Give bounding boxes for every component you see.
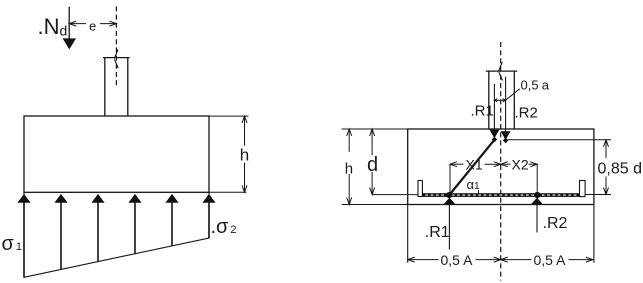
svg-text:0,5 a: 0,5 a	[521, 77, 550, 92]
force arrowhead R2	[501, 131, 511, 140]
svg-text:.σ1: .σ1	[0, 233, 22, 255]
eccentricity dimension line e	[69, 21, 116, 26]
svg-text:X2: X2	[512, 156, 529, 172]
svg-text:.Nd: .Nd	[38, 14, 68, 39]
extension line footing right edge down	[593, 205, 595, 263]
reaction tail R2 bottom	[536, 204, 538, 232]
node R2	[534, 192, 540, 198]
column axis dashed line left	[115, 6, 117, 88]
svg-text:.R1: .R1	[471, 103, 494, 120]
footing outline left	[24, 116, 209, 192]
dimension h left	[242, 116, 247, 192]
svg-text:0,5 A: 0,5 A	[534, 252, 567, 268]
svg-text:.R1: .R1	[425, 224, 450, 241]
soil reaction arrows	[17, 194, 215, 277]
extension line 0,85d bottom	[585, 194, 611, 196]
column right diagram	[486, 70, 517, 72]
svg-text:0,5 A: 0,5 A	[441, 252, 474, 268]
dimension 0,5A left	[408, 257, 501, 262]
extension line 0,85d top	[507, 139, 611, 141]
force arrowhead R1	[489, 130, 499, 139]
rebar dashed centerline	[420, 194, 585, 196]
extension line top left right-diagram	[342, 128, 408, 130]
axis tick marks right	[499, 62, 503, 71]
leader alpha1	[478, 190, 480, 193]
load arrowhead Nd	[63, 38, 76, 49]
force line R2	[505, 77, 507, 133]
axis tick marks left	[114, 50, 118, 59]
node R1	[446, 192, 452, 198]
svg-text:.R2: .R2	[543, 215, 568, 232]
dimension tick 0,5a	[494, 99, 505, 102]
dimension 0,85d	[604, 140, 609, 195]
svg-text:.σ2: .σ2	[211, 216, 237, 238]
force line R1	[493, 84, 495, 131]
dimension h left extension lines	[209, 115, 249, 117]
strut	[449, 140, 494, 195]
rebar hook right	[580, 181, 586, 197]
stress trapezoid	[24, 192, 209, 277]
svg-text:h: h	[240, 145, 249, 164]
svg-text:h: h	[345, 160, 353, 177]
reaction arrowhead R1 bottom	[444, 198, 456, 205]
reaction tail R1 bottom	[448, 204, 450, 249]
extension line footing left edge down	[407, 205, 409, 263]
svg-text:.R2: .R2	[515, 105, 538, 122]
svg-text:e: e	[89, 18, 96, 33]
dimension 0,5A right	[501, 257, 593, 262]
reaction arrowhead R2 bottom	[531, 198, 543, 205]
dimension X1	[450, 162, 501, 192]
extension line d bottom	[372, 194, 418, 196]
footing outline right	[408, 129, 594, 205]
dimension X2	[501, 162, 538, 192]
svg-text:d: d	[367, 154, 378, 176]
dimension h right	[347, 129, 352, 205]
svg-text:α1: α1	[467, 177, 481, 192]
leader line 0,5a	[506, 89, 520, 100]
load axis line Nd	[68, 7, 70, 41]
dimension d right	[370, 129, 375, 195]
rebar hook left	[418, 181, 422, 197]
extension line bottom left right-diagram	[342, 204, 408, 206]
svg-text:X1: X1	[466, 156, 483, 172]
column left diagram	[103, 57, 130, 59]
svg-text:0,85 d: 0,85 d	[598, 161, 642, 178]
center axis dashed right	[500, 42, 502, 281]
rebar tie band	[418, 193, 585, 197]
node diamond R2	[503, 138, 509, 144]
node diamond R1	[492, 137, 498, 143]
